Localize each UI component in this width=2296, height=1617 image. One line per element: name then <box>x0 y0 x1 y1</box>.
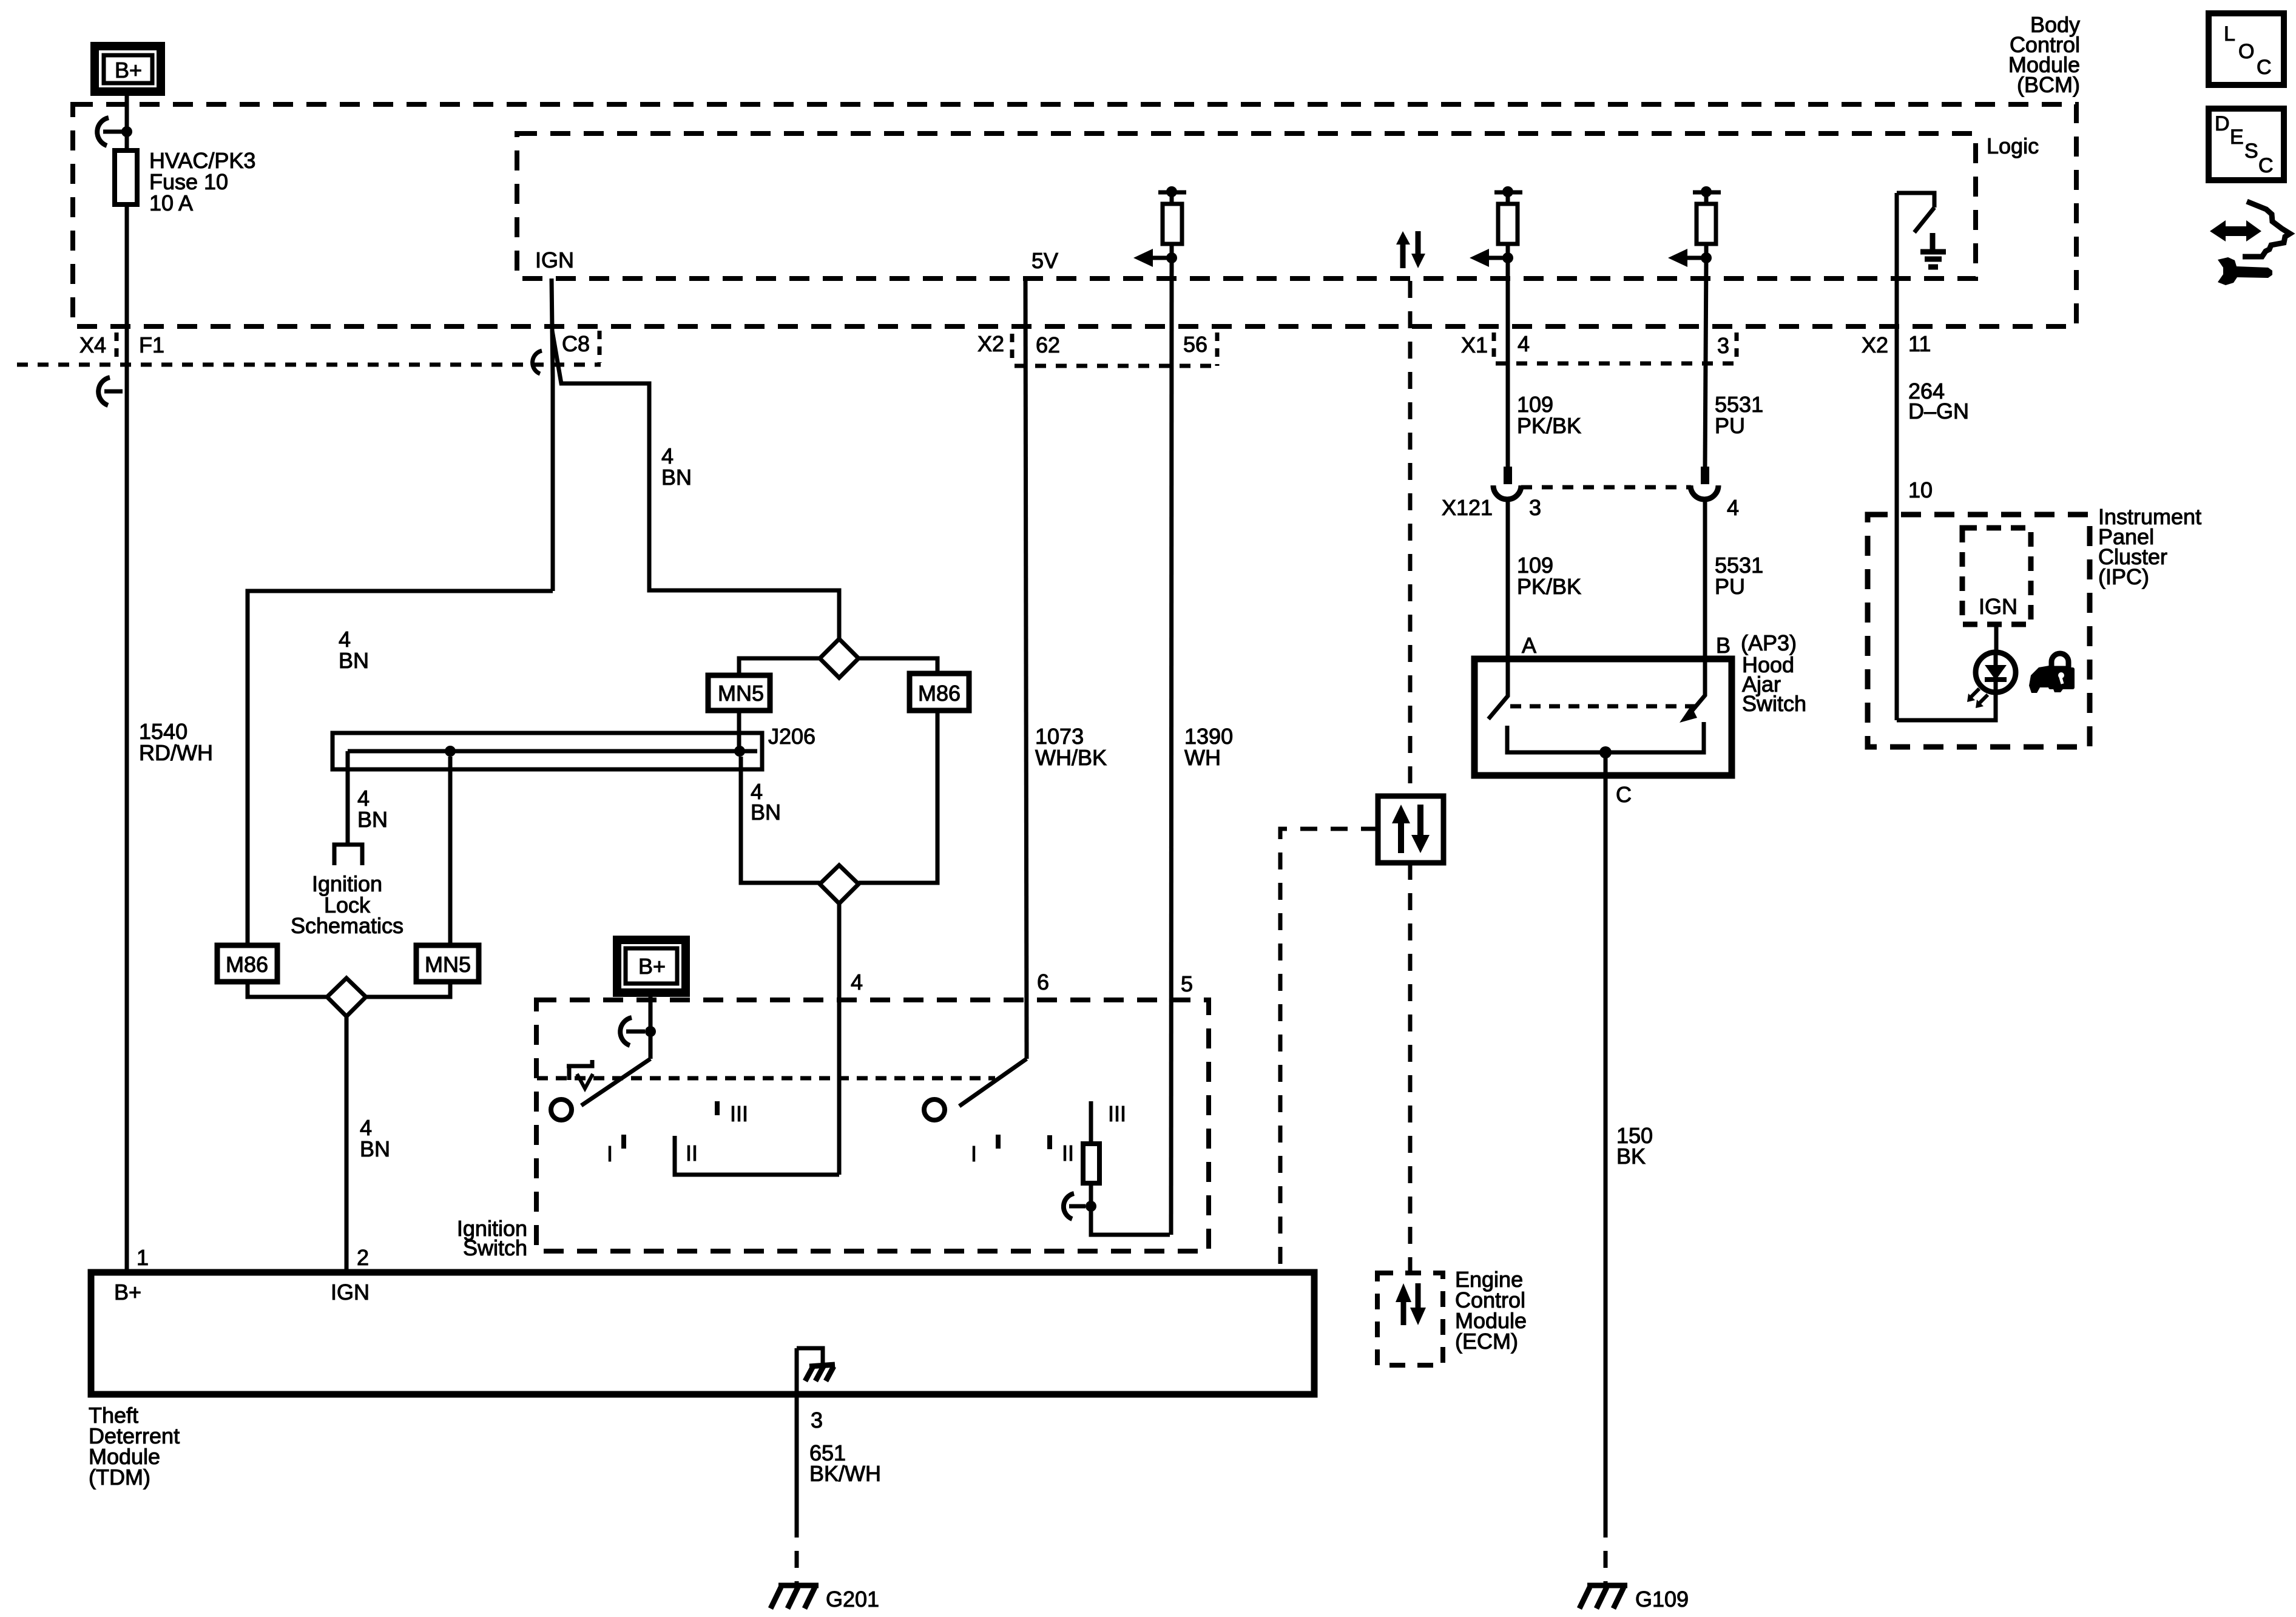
svg-text:M86: M86 <box>226 952 268 977</box>
svg-text:(ECM): (ECM) <box>1455 1329 1518 1354</box>
wire C out of hood switch <box>1604 752 1608 1521</box>
svg-text:G201: G201 <box>826 1587 879 1612</box>
contact circle ignition right <box>924 1099 945 1120</box>
switch contact stubs and bus <box>1507 722 1704 752</box>
svg-text:BN: BN <box>661 465 692 490</box>
svg-text:G109: G109 <box>1635 1587 1689 1612</box>
svg-text:BN: BN <box>339 648 369 673</box>
resistor R3 in BCM <box>1693 186 1721 258</box>
switch hood ajar box <box>1474 659 1732 775</box>
position mark III left <box>717 1101 748 1126</box>
bus bar J206 <box>333 724 815 769</box>
label X121 3 <box>1442 495 1541 520</box>
position mark III right <box>1108 1101 1126 1126</box>
pin 5V of BCM logic <box>1032 248 1058 273</box>
connector X121 pin4 male-female <box>1690 467 1718 499</box>
svg-text:C8: C8 <box>562 331 590 356</box>
box MN5 lower <box>416 945 479 982</box>
label 4 BN riser <box>661 444 692 490</box>
position mark I left <box>607 1135 624 1166</box>
wire 109 PK/BK BCM X1-4 to X121 <box>1506 258 1510 467</box>
label 4 BN J206 left <box>357 786 388 832</box>
svg-text:I: I <box>971 1141 977 1166</box>
svg-text:MN5: MN5 <box>718 681 764 706</box>
wire diamond to M86 upper <box>859 658 937 673</box>
power symbol B+ box ignition <box>617 940 686 993</box>
symbol serial data arrows ECM <box>1396 1283 1426 1325</box>
wire run position II to diamond <box>837 903 842 1175</box>
label Ignition Lock Schematics <box>291 871 403 938</box>
wire branch left to M86 <box>248 591 553 945</box>
svg-text:2: 2 <box>357 1245 369 1270</box>
label 5531 PU upper <box>1715 392 1763 438</box>
label pin 1 TDM <box>137 1245 149 1270</box>
svg-text:5V: 5V <box>1032 248 1058 273</box>
box M86 lower <box>217 945 277 982</box>
label 5531 PU lower <box>1715 553 1763 599</box>
svg-text:II: II <box>1062 1141 1074 1166</box>
switch blade A <box>1488 659 1508 719</box>
svg-text:PK/BK: PK/BK <box>1517 574 1581 599</box>
svg-text:C: C <box>2257 56 2272 79</box>
svg-text:BN: BN <box>357 807 388 832</box>
ground internal TDM <box>797 1348 835 1381</box>
label B (AP3) <box>1716 630 1797 658</box>
label Logic <box>1987 133 2039 158</box>
label 1390 WH <box>1184 724 1233 770</box>
ground G109 <box>1579 1585 1689 1612</box>
wire serial data dashed to ECM <box>1408 863 1413 1273</box>
wire serial data dashed to TDM <box>1280 829 1378 1272</box>
svg-text:Logic: Logic <box>1987 133 2039 158</box>
svg-text:PK/BK: PK/BK <box>1517 413 1581 438</box>
connector hook crank resistor <box>1064 1193 1096 1219</box>
wire 109 PK/BK X121 to hood switch A <box>1506 499 1510 659</box>
module box Ignition Switch dashed <box>536 1000 1209 1251</box>
label 6 ignition pin <box>1037 970 1049 994</box>
wire MN5 upper to J206 <box>737 711 741 751</box>
svg-text:D–GN: D–GN <box>1908 399 1969 424</box>
svg-text:A: A <box>1522 633 1536 658</box>
svg-text:III: III <box>730 1101 748 1126</box>
arrow internal left R1 <box>1133 249 1177 267</box>
svg-text:Schematics: Schematics <box>291 913 403 938</box>
wire M86 upper down to diamond2 <box>859 711 937 883</box>
svg-text:4: 4 <box>1727 495 1739 520</box>
node IGN dashed box in IPC <box>1962 528 2031 624</box>
svg-text:3: 3 <box>1529 495 1541 520</box>
svg-text:L: L <box>2224 22 2235 46</box>
arrow internal left R2 <box>1470 249 1513 267</box>
wire dotted X121 harness <box>1521 485 1691 490</box>
label 3 TDM pin <box>811 1408 823 1433</box>
wire IGN to indicator <box>1994 624 1999 653</box>
label Theft Deterrent Module (TDM) <box>89 1403 180 1490</box>
svg-text:B: B <box>1716 633 1730 658</box>
svg-text:4: 4 <box>851 970 863 994</box>
fuse HVAC/PK3 Fuse 10 10A <box>115 148 255 215</box>
label 5 ignition pin <box>1181 971 1193 996</box>
label 56 <box>1183 332 1207 357</box>
svg-text:B+: B+ <box>115 58 142 83</box>
connector hook at fuse feed <box>97 118 132 146</box>
svg-text:Switch: Switch <box>1742 691 1806 716</box>
symbol serial data arrows top <box>1396 231 1425 268</box>
svg-text:X121: X121 <box>1442 495 1493 520</box>
svg-text:3: 3 <box>1717 333 1729 358</box>
label C8 <box>562 331 590 356</box>
position mark II right <box>1050 1135 1074 1166</box>
svg-text:X2: X2 <box>977 331 1004 356</box>
module box ECM dashed <box>1377 1273 1443 1365</box>
svg-text:1: 1 <box>137 1245 149 1270</box>
box M86 upper <box>910 673 969 711</box>
svg-text:11: 11 <box>1908 331 1931 356</box>
icon service double-arrow wrench <box>2210 201 2290 285</box>
wire 1073 WH/BK 5V to ignition pin 6 <box>1025 279 1027 1059</box>
svg-text:IGN: IGN <box>535 248 574 272</box>
label 4 BN left branch <box>339 627 369 673</box>
svg-text:C: C <box>1616 782 1632 807</box>
label IGN TDM <box>331 1280 370 1305</box>
module box BCM Logic dashed <box>517 133 1976 279</box>
label Ignition Switch <box>457 1216 527 1260</box>
label 10 <box>1908 478 1933 502</box>
legend box LOC <box>2209 13 2284 85</box>
key symbol <box>567 1060 593 1089</box>
ground internal BCM <box>1920 233 1946 267</box>
switch blade ignition right <box>959 1059 1027 1106</box>
switch to ground in BCM <box>1897 193 1934 232</box>
connector labels X2 11 <box>1862 331 1931 357</box>
svg-text:BK/WH: BK/WH <box>809 1461 881 1486</box>
node splice on J206 left <box>445 746 456 757</box>
connector labels X1 4 <box>1461 331 1530 359</box>
label 264 D-GN <box>1908 379 1969 424</box>
svg-text:PU: PU <box>1715 574 1745 599</box>
splice diamond middle <box>820 865 859 903</box>
svg-text:56: 56 <box>1183 332 1207 357</box>
arrow internal left R3 <box>1668 249 1712 267</box>
svg-text:(AP3): (AP3) <box>1741 630 1797 655</box>
svg-text:I: I <box>607 1141 613 1166</box>
power symbol B+ box top-left <box>95 46 161 92</box>
label Instrument Panel Cluster (IPC) <box>2098 504 2201 589</box>
svg-text:RD/WH: RD/WH <box>139 740 213 765</box>
connector hook below X4/F1 <box>98 377 123 405</box>
wire dashed to G109 <box>1604 1521 1608 1584</box>
label 651 BK/WH <box>809 1440 881 1486</box>
wire B+ into switch <box>649 993 653 1059</box>
node C junction <box>1599 746 1612 758</box>
switch blade B with arrow <box>1680 659 1705 723</box>
wire MN5 lower to diamond3 <box>365 982 450 997</box>
wire M86 lower to diamond3 <box>248 982 328 997</box>
legend box DESC <box>2209 109 2284 180</box>
connector labels X2 62 <box>977 331 1060 360</box>
contact circle ignition left <box>551 1099 572 1120</box>
svg-text:BK: BK <box>1616 1144 1646 1169</box>
wire J206 right dot down to diamond2 <box>741 757 820 883</box>
svg-text:B+: B+ <box>638 954 666 979</box>
node splice on J206 right <box>734 746 745 757</box>
svg-text:PU: PU <box>1715 413 1745 438</box>
wire 5531 PU X121 to hood switch B <box>1703 499 1707 659</box>
position contact II left <box>675 1136 839 1175</box>
label C <box>1616 782 1632 807</box>
wire branch C8 to right riser <box>552 331 839 639</box>
wire IGN C8 down <box>552 279 553 591</box>
svg-text:X4: X4 <box>79 333 106 357</box>
svg-text:III: III <box>1108 1101 1126 1126</box>
switch linkage dashed <box>1510 704 1695 709</box>
icon vehicle security lock <box>2029 653 2075 693</box>
wire 5531 PU BCM X1-3 to X121 <box>1705 258 1706 467</box>
svg-text:5: 5 <box>1181 971 1193 996</box>
wire 1540 RD/WH fuse to TDM pin 1 <box>125 204 129 1272</box>
wire B+ to fuse <box>125 92 129 150</box>
switch linkage ignition dashed <box>537 1076 995 1081</box>
indicator LED security <box>1976 652 2016 692</box>
connector dotted line X2 <box>1015 333 1217 366</box>
svg-text:E: E <box>2230 126 2244 149</box>
svg-text:6: 6 <box>1037 970 1049 994</box>
wire diamond to MN5 upper <box>739 658 820 675</box>
label A <box>1522 633 1536 658</box>
resistor R1 in BCM <box>1158 186 1186 258</box>
wire diamond3 to TDM pin 2 <box>345 1016 349 1272</box>
svg-text:62: 62 <box>1036 333 1060 357</box>
wire 264 D-GN BCM to IPC <box>1895 193 1899 720</box>
label 150 BK <box>1616 1123 1653 1169</box>
connector hook C8 <box>533 351 542 374</box>
resistor R2 in BCM <box>1494 186 1522 258</box>
wire serial data dashed vertical <box>1408 281 1413 796</box>
label 1540 RD/WH <box>139 719 213 765</box>
svg-text:IGN: IGN <box>331 1280 370 1305</box>
label pin 2 TDM <box>357 1245 369 1270</box>
label 4 ignition pin <box>851 970 863 994</box>
connector dotted line left <box>17 331 601 365</box>
wire indicator to 264 return <box>1897 691 1996 720</box>
wire 1390 WH BCM 56 to ignition pin 5 <box>1171 258 1172 1235</box>
svg-text:10 A: 10 A <box>149 191 193 215</box>
connector labels X4 F1 <box>79 333 164 359</box>
svg-text:S: S <box>2244 140 2258 163</box>
svg-text:J206: J206 <box>768 724 815 749</box>
wire dashed to G201 <box>795 1521 799 1584</box>
pin IGN of BCM logic <box>535 248 574 272</box>
label Body Control Module (BCM) <box>2008 12 2080 97</box>
module box IPC dashed <box>1868 515 2090 747</box>
label 4 X121 right <box>1727 495 1739 520</box>
wire J206 dot down to MN5 lower <box>448 757 453 945</box>
svg-text:X1: X1 <box>1461 333 1488 357</box>
connector hook ignition feed <box>620 1018 656 1045</box>
label Hood Ajar Switch <box>1742 652 1806 716</box>
label Engine Control Module (ECM) <box>1455 1267 1527 1354</box>
svg-text:C: C <box>2258 154 2274 177</box>
svg-text:WH: WH <box>1184 745 1221 770</box>
svg-text:Switch: Switch <box>463 1235 527 1260</box>
svg-text:(IPC): (IPC) <box>2098 564 2149 589</box>
svg-text:F1: F1 <box>139 333 164 357</box>
label 109 PK/BK lower <box>1517 553 1581 599</box>
svg-text:D: D <box>2215 112 2230 135</box>
svg-text:MN5: MN5 <box>425 952 471 977</box>
module box BCM outer dashed <box>73 104 2076 326</box>
label 4 BN TDM ign <box>360 1115 390 1161</box>
label 1073 WH/BK <box>1035 724 1107 770</box>
splice diamond bottom <box>327 978 366 1016</box>
svg-text:(BCM): (BCM) <box>2017 72 2080 97</box>
switch blade ignition left <box>581 1059 650 1106</box>
position mark I right <box>971 1135 998 1166</box>
label B+ TDM <box>114 1280 141 1305</box>
svg-text:3: 3 <box>811 1408 823 1433</box>
ground G201 <box>771 1585 879 1612</box>
box MN5 upper <box>708 675 770 711</box>
label 109 PK/BK upper <box>1517 392 1581 438</box>
svg-text:(TDM): (TDM) <box>89 1465 150 1490</box>
wire 651 BK/WH TDM pin 3 <box>795 1348 799 1521</box>
resistor crank bypass <box>1083 1101 1170 1235</box>
svg-text:M86: M86 <box>918 681 961 706</box>
svg-text:B+: B+ <box>114 1280 141 1305</box>
wire J206 left end down to ignition lock <box>346 751 350 845</box>
connector dotted line X1 <box>1496 333 1739 363</box>
symbol serial data box with arrows <box>1378 796 1443 863</box>
svg-text:WH/BK: WH/BK <box>1035 745 1107 770</box>
svg-text:IGN: IGN <box>1979 594 2017 619</box>
label 4 BN MN5 drop <box>751 779 781 825</box>
svg-text:BN: BN <box>360 1136 390 1161</box>
connector X121 pin3 male-female <box>1493 467 1521 499</box>
arrows LED light <box>1967 689 1988 708</box>
svg-text:X2: X2 <box>1862 333 1888 357</box>
svg-text:4: 4 <box>1518 331 1530 356</box>
svg-text:II: II <box>686 1141 698 1166</box>
label 3 X1 <box>1717 333 1729 358</box>
svg-text:BN: BN <box>751 800 781 825</box>
terminal ignition lock schematics <box>334 845 362 865</box>
svg-text:O: O <box>2238 40 2254 63</box>
splice diamond top <box>820 639 859 678</box>
svg-text:10: 10 <box>1908 478 1933 502</box>
module box TDM <box>91 1272 1314 1394</box>
